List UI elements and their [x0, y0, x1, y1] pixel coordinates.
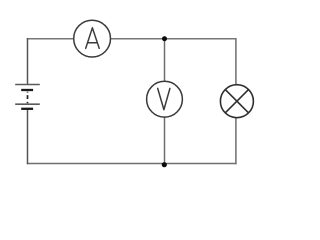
lamp L1 circle [220, 85, 253, 118]
battery dashed cells line [27, 92, 29, 104]
battery B1 short plate 2 [21, 108, 33, 110]
battery B1 short plate 1 [21, 89, 33, 91]
ammeter label A [86, 28, 100, 49]
battery B1 long plate 2 [15, 103, 40, 105]
node junction dot bottom [162, 162, 167, 167]
ammeter U1 circle [74, 20, 111, 57]
wire left vertical upper [27, 38, 29, 85]
node junction dot top [162, 36, 167, 41]
wire right vertical (lamp branch) [235, 38, 237, 164]
wire middle vertical (voltmeter branch) [164, 39, 166, 164]
wire top horizontal [27, 38, 236, 40]
voltmeter U2 circle [147, 81, 183, 117]
lamp L1 cross stroke 2 [225, 90, 248, 113]
voltmeter label V [158, 88, 170, 109]
wire bottom horizontal [27, 163, 237, 165]
wire left vertical lower [27, 109, 29, 164]
lamp L1 cross stroke 1 [225, 90, 248, 113]
battery B1 long plate 1 [15, 84, 40, 86]
